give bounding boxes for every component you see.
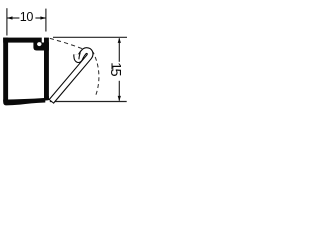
svg-text:5: 5 bbox=[107, 68, 123, 76]
svg-text:10: 10 bbox=[20, 10, 34, 24]
